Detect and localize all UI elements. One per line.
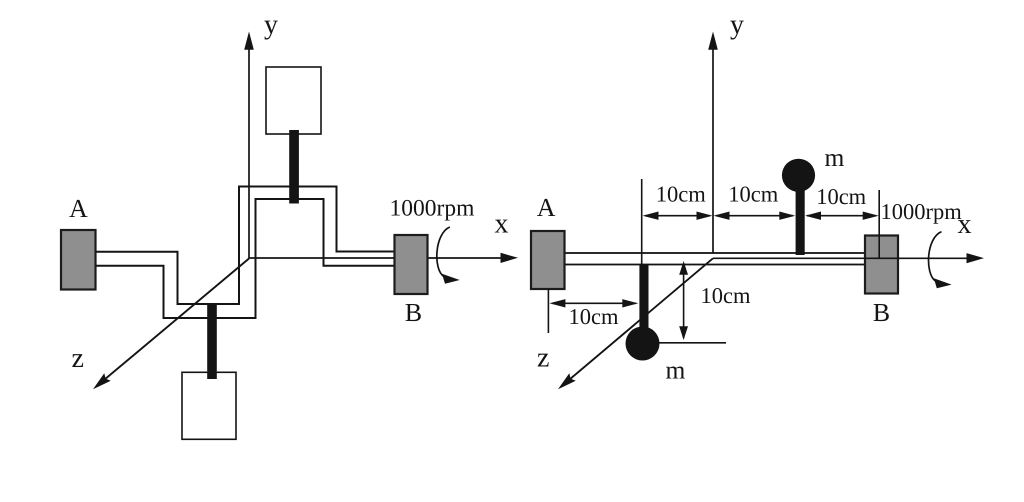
crank bar inner edge (left) <box>96 199 395 318</box>
vertical dimension arrow 10cm (shaft to lower ball) <box>679 261 688 340</box>
svg-text:y: y <box>730 10 744 41</box>
x axis (right) <box>713 253 984 263</box>
rotation arrow arc (right) <box>929 232 942 281</box>
svg-text:z: z <box>72 343 84 374</box>
svg-text:1000rpm: 1000rpm <box>881 199 963 224</box>
upper mass rod (right) <box>796 186 805 255</box>
lower mass ball m (right) <box>626 327 660 361</box>
lower mass rod (right) <box>639 265 648 333</box>
svg-text:A: A <box>69 194 88 223</box>
bearing A (left) <box>61 230 96 290</box>
dimension arrow 10cm (y-axis to upper rod) <box>714 212 796 220</box>
bottom counterweight box (left) <box>182 372 236 439</box>
extension line below bearing A (right) <box>547 289 549 333</box>
dimension arrow 10cm (upper rod to bearing B line) <box>805 212 879 220</box>
x axis (left) <box>249 253 518 263</box>
z axis (left) <box>93 259 249 390</box>
svg-text:10cm: 10cm <box>728 182 778 207</box>
upper mass ball m (right) <box>782 159 815 192</box>
svg-text:m: m <box>666 356 686 385</box>
svg-text:y: y <box>264 10 278 41</box>
svg-text:B: B <box>405 298 422 327</box>
top mass rod (left) <box>289 130 299 204</box>
top counterweight box (left) <box>266 67 321 134</box>
z axis (right) <box>558 258 713 389</box>
svg-text:m: m <box>825 143 845 172</box>
bottom mass rod (left) <box>207 303 217 379</box>
svg-text:x: x <box>495 209 509 240</box>
bearing B (right) <box>865 236 898 294</box>
dimension arrow 10cm (bearing A to lower rod) <box>549 299 638 307</box>
svg-text:A: A <box>537 193 556 222</box>
y axis (right) <box>708 32 718 254</box>
svg-text:1000rpm: 1000rpm <box>390 196 475 222</box>
y axis (left) <box>244 32 254 259</box>
svg-text:10cm: 10cm <box>701 283 751 308</box>
bearing A (right) <box>531 231 565 289</box>
extension line above lower rod (right) <box>641 179 643 265</box>
extension line at bearing B (right) <box>878 190 880 259</box>
rotation arrowhead (left) <box>442 274 460 284</box>
dimension arrow 10cm (z-rod to y-axis) <box>643 212 713 220</box>
svg-text:B: B <box>873 298 890 327</box>
bearing B (left) <box>395 235 428 294</box>
svg-text:10cm: 10cm <box>816 184 866 209</box>
rotation arrowhead (right) <box>934 278 952 288</box>
shaft (right) <box>564 253 865 265</box>
crank bar outer edge (left) <box>96 187 395 305</box>
svg-text:z: z <box>537 343 549 374</box>
svg-text:10cm: 10cm <box>656 182 706 207</box>
svg-text:10cm: 10cm <box>569 304 619 329</box>
rotation arrow arc (left) <box>437 227 450 277</box>
reference line at lower ball (right) <box>659 342 726 344</box>
